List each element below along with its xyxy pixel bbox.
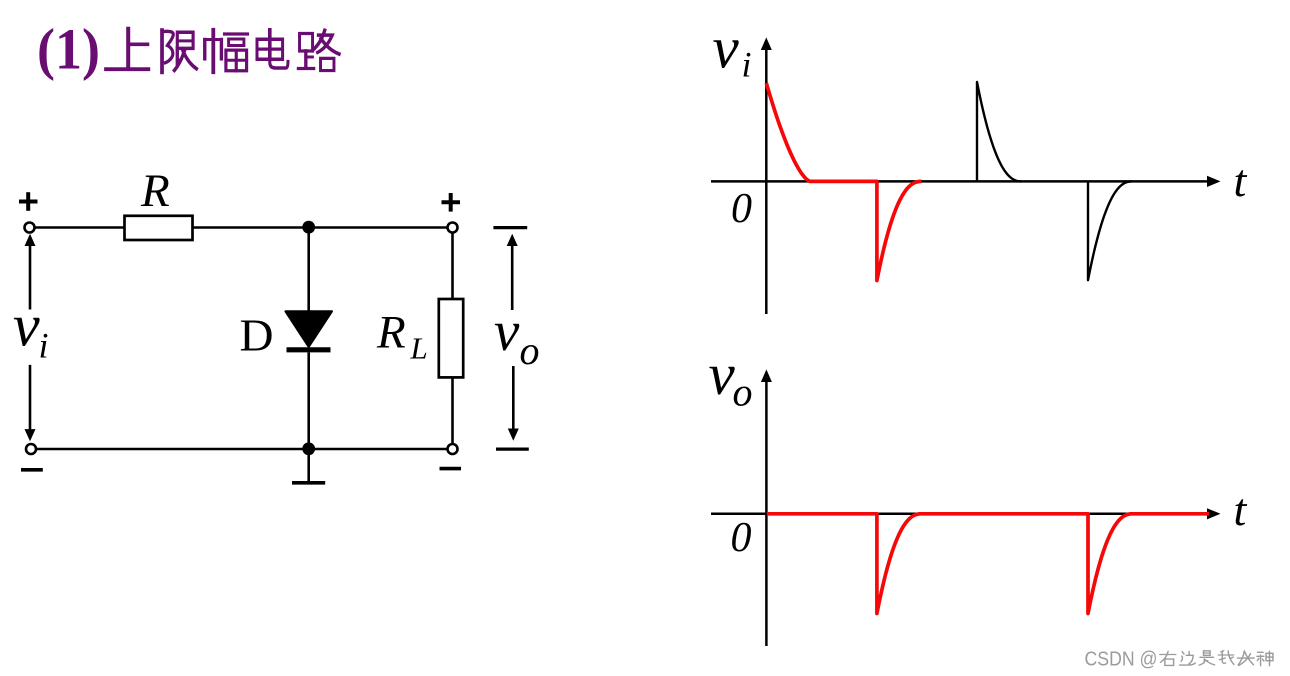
diode D (anode triangle): [285, 311, 332, 347]
ground: [307, 449, 310, 481]
plot1 black negative spike: [1088, 181, 1132, 280]
vo arrow upper segment: [511, 245, 514, 310]
wire: diode cathode to bottom junction: [307, 352, 310, 443]
node: top junction dot: [302, 221, 315, 234]
wire: RL to bottom-right terminal: [451, 377, 454, 444]
resistor R (body): [125, 216, 193, 240]
svg-text:t: t: [1234, 155, 1248, 206]
resistor RL (body): [439, 299, 463, 377]
title char 电: [257, 30, 288, 68]
svg-text:v: v: [13, 292, 40, 358]
vo top reference bar: [493, 226, 527, 229]
watermark char 女: [1237, 651, 1254, 665]
svg-text:v: v: [709, 341, 736, 407]
terminal circle bottom-left: [26, 444, 36, 454]
title char 限: [162, 30, 196, 72]
vi voltage arrow upper segment: [29, 245, 32, 310]
plot1 y-axis: [765, 49, 768, 315]
vi voltage arrow (up head): [25, 234, 36, 246]
svg-text:t: t: [1234, 484, 1248, 535]
svg-text:L: L: [410, 331, 428, 366]
svg-text:(1): (1): [37, 17, 100, 82]
node: input - terminal marker (minus sign, bottom-left): [21, 468, 43, 472]
wire: top junction to diode anode: [307, 227, 310, 312]
watermark char 右: [1160, 651, 1176, 665]
watermark char 是: [1199, 651, 1214, 665]
watermark char 神: [1257, 651, 1273, 665]
svg-text:o: o: [520, 328, 540, 373]
wire: bottom rail: [36, 448, 448, 451]
node: output + terminal marker (plus sign, top-right): [442, 193, 461, 212]
vi voltage arrow lower segment: [29, 365, 32, 431]
terminal circle top-left: [25, 223, 35, 233]
plot1 black positive spike: [977, 82, 1022, 181]
plot2 x-axis: [711, 513, 1209, 516]
svg-text:R: R: [140, 165, 170, 217]
vo bottom reference bar: [496, 448, 529, 451]
terminal circle top-right: [448, 223, 458, 233]
svg-text:R: R: [376, 307, 406, 359]
svg-text:i: i: [39, 326, 49, 366]
svg-text:0: 0: [731, 186, 752, 232]
diode D (cathode bar): [287, 347, 331, 352]
title char 上: [106, 29, 149, 69]
plot1 x-axis: [711, 180, 1209, 183]
vo arrow (down head): [508, 429, 519, 441]
plot1 red vi waveform: [766, 83, 921, 281]
svg-text:0: 0: [731, 515, 752, 561]
svg-text:v: v: [713, 15, 740, 81]
terminal circle bottom-right: [448, 444, 458, 454]
vi voltage arrow (down head): [25, 429, 36, 441]
watermark char 边: [1180, 652, 1196, 665]
wire: output terminal down to RL: [451, 233, 454, 300]
node: bottom junction dot: [302, 442, 315, 455]
svg-text:v: v: [494, 300, 520, 363]
title char 路: [298, 30, 339, 70]
wire: resistor R to output terminal (top rail): [193, 226, 448, 229]
node: output - terminal marker (minus sign, bottom-right): [440, 467, 462, 471]
svg-text:D: D: [240, 311, 274, 361]
svg-text:i: i: [742, 45, 752, 85]
plot2 red vo waveform: [767, 514, 1209, 614]
vo arrow (up head): [507, 234, 518, 246]
wire: input terminal to resistor R: [36, 226, 126, 229]
title char 幅: [205, 30, 248, 72]
svg-text:o: o: [733, 369, 753, 414]
plot2 y-axis: [765, 381, 768, 647]
node: input + terminal marker (plus sign, top-left): [19, 192, 38, 211]
svg-text:CSDN @: CSDN @: [1085, 648, 1158, 671]
vo arrow lower segment: [512, 366, 515, 430]
watermark char 我: [1218, 651, 1234, 665]
